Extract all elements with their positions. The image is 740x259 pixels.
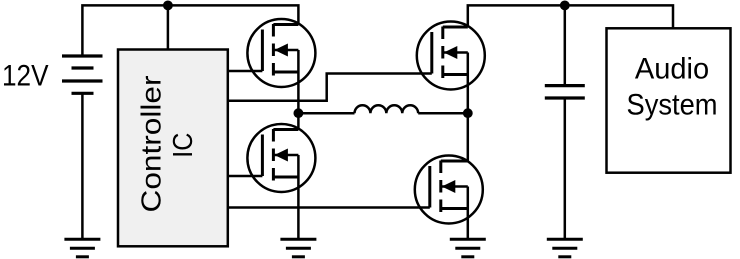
- wire: Q3 drain to V+ rail right: [468, 5, 673, 28]
- transistor Q3 (high-side right MOSFET): [417, 22, 485, 90]
- wire: Q2 source to ground: [297, 155, 300, 239]
- wire: Q4 source to ground: [467, 187, 470, 240]
- wire: V+ rail to controller IC top: [167, 5, 170, 49]
- ground (Q2 source): [280, 239, 316, 256]
- wire: IC pin3 to Q2 gate: [228, 175, 263, 178]
- inductor L1: [355, 105, 419, 113]
- transistor Q1 (high-side left MOSFET): [247, 19, 315, 87]
- wire: battery negative to ground: [81, 93, 84, 239]
- transistor Q2 (low-side left MOSFET): [247, 124, 315, 192]
- svg-text:Audio: Audio: [635, 52, 709, 85]
- battery 12V: [62, 56, 103, 93]
- capacitor C1: [545, 86, 585, 98]
- svg-text:IC: IC: [167, 133, 198, 158]
- wire: IC pin4 to Q4 gate: [228, 206, 430, 209]
- wire: inductor to node B: [418, 112, 468, 115]
- wire: battery positive to V+ rail and Q1 drain: [82, 5, 298, 56]
- transistor Q4 (low-side right MOSFET): [415, 156, 483, 224]
- node: V+ rail right junction above capacitor: [560, 1, 570, 11]
- ground (capacitor): [547, 239, 583, 256]
- audio system load block: [607, 28, 731, 172]
- ground (battery): [64, 239, 100, 256]
- controller IC U1: [118, 50, 228, 247]
- node: V+ rail junction above controller: [163, 1, 173, 11]
- wire: Q3 source to node B: [467, 53, 470, 114]
- wire: Q1 source to switch node A: [297, 50, 300, 113]
- svg-text:12V: 12V: [2, 60, 49, 93]
- wire: node B to Q4 drain: [467, 113, 470, 161]
- node B: right switch node junction: [463, 108, 473, 118]
- wire: node A to inductor: [298, 112, 354, 115]
- svg-text:System: System: [627, 88, 718, 121]
- wire: capacitor bottom to ground: [564, 98, 567, 239]
- svg-text:Controller: Controller: [135, 76, 166, 213]
- wire: IC pin1 to Q1 gate: [228, 70, 263, 73]
- wire: IC pin2 to Q3 gate (stepped): [228, 74, 432, 101]
- wire: rail junction to capacitor top: [564, 5, 567, 85]
- wire: node A to Q2 drain: [297, 113, 300, 129]
- node A: left switch node junction: [294, 108, 304, 118]
- ground (Q4 source): [450, 239, 486, 256]
